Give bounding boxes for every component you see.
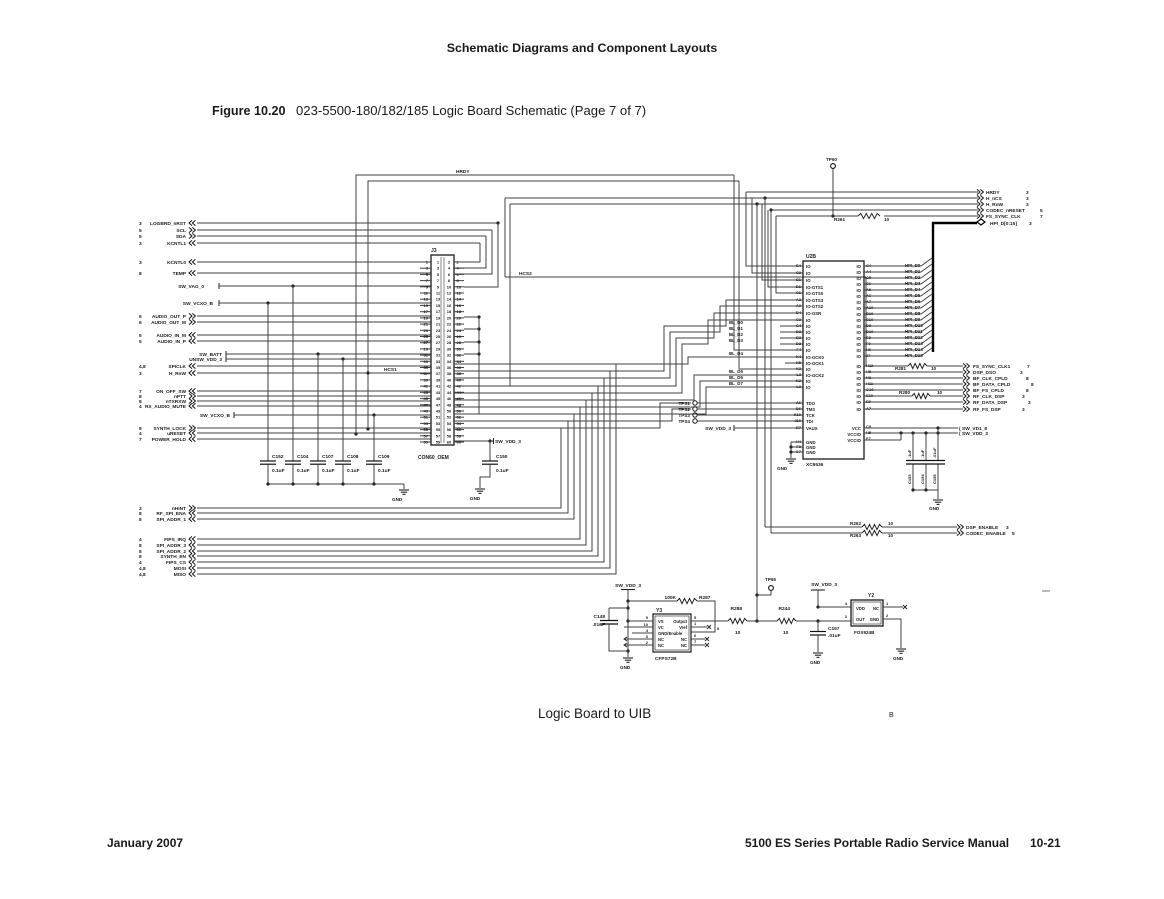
svg-text:7: 7 (139, 437, 142, 443)
svg-text:POWER_HOLD: POWER_HOLD (152, 437, 187, 443)
wire U2B IO stub 369 (785, 368, 803, 370)
node nTXRXW (139, 398, 195, 405)
svg-text:IO: IO (856, 276, 861, 281)
svg-text:8: 8 (139, 554, 142, 560)
svg-text:H_RnW: H_RnW (986, 202, 1004, 208)
capacitor C148 (592, 608, 628, 651)
net label BL_D6 (729, 375, 743, 380)
svg-text:13: 13 (424, 297, 429, 302)
svg-text:21: 21 (436, 322, 441, 327)
wire uRESET row (197, 432, 431, 434)
svg-text:48: 48 (447, 402, 452, 407)
net labels HPI_D0-D15 (905, 263, 923, 358)
svg-text:FS_SYNC_CLK: FS_SYNC_CLK (986, 214, 1021, 220)
svg-text:IO: IO (806, 348, 811, 353)
wire SCL row (197, 229, 492, 231)
op-amp U2B left pin names GCK (796, 354, 802, 389)
svg-text:IO: IO (806, 385, 811, 390)
svg-text:C152: C152 (272, 454, 284, 460)
svg-text:C104: C104 (297, 454, 309, 460)
wire UNSW_VDD_3 row (226, 357, 431, 360)
node SW_VDD_3 VAUX (705, 425, 734, 432)
node SPI_ADDR_1 (139, 516, 195, 523)
svg-text:20: 20 (457, 315, 462, 320)
op-amp U2B power pin labels (847, 424, 871, 443)
svg-text:R281: R281 (895, 366, 906, 371)
node SW_VDD_3 oscillator (811, 582, 837, 590)
svg-text:TPS2: TPS2 (679, 407, 691, 412)
svg-text:3: 3 (1026, 190, 1029, 196)
oscillator Y2 pin labels (856, 606, 879, 622)
svg-text:TP65: TP65 (765, 577, 776, 582)
svg-text:Schematic Diagrams and Compone: Schematic Diagrams and Component Layouts (447, 41, 718, 55)
svg-text:29: 29 (424, 346, 429, 351)
svg-text:C4: C4 (796, 323, 802, 328)
wire Y3 NC pins right x (691, 633, 709, 647)
wire U2B IO stub 338 (780, 337, 803, 339)
wire H_RnW down to U2B (762, 204, 803, 280)
svg-text:SW_VDD_3: SW_VDD_3 (495, 439, 521, 445)
wire H_RnW long rail (510, 202, 978, 386)
svg-text:BL_D3: BL_D3 (729, 338, 743, 343)
wire FS_SYNC_CLK1 row (864, 365, 963, 367)
wire SDA row (197, 235, 486, 237)
svg-text:AUDIO_OUT_M: AUDIO_OUT_M (151, 320, 186, 326)
node MISO (139, 571, 195, 578)
svg-text:IO: IO (856, 312, 861, 317)
svg-text:C157: C157 (828, 626, 840, 632)
svg-text:SCL: SCL (176, 228, 186, 234)
wire H_nCS long rail (505, 196, 978, 277)
svg-text:D6: D6 (796, 406, 802, 411)
svg-text:IO: IO (856, 282, 861, 287)
svg-text:26: 26 (447, 334, 452, 339)
svg-text:C150: C150 (496, 454, 508, 460)
svg-text:4: 4 (139, 560, 142, 566)
wire AUDIO_IN_P row (197, 340, 431, 342)
svg-text:5: 5 (139, 234, 142, 240)
svg-text:R288: R288 (731, 606, 743, 612)
node SYNTH_LOCK (139, 425, 195, 432)
svg-text:J3: J3 (431, 248, 437, 254)
wire U2B GSR stub (780, 312, 803, 314)
wire U2B IO stub 350 (785, 349, 803, 351)
svg-text:GND: GND (806, 450, 816, 455)
svg-text:IO: IO (806, 367, 811, 372)
wire SPI_ADDR_2 bundle path (197, 393, 592, 551)
svg-text:50: 50 (447, 409, 452, 414)
svg-text:5100 ES Series Portable Radio: 5100 ES Series Portable Radio Service Ma… (745, 836, 1009, 850)
svg-text:33: 33 (424, 359, 429, 364)
node DSP_ENABLE off-page (957, 524, 1009, 531)
svg-text:R261: R261 (834, 217, 845, 222)
svg-text:Output: Output (673, 619, 687, 624)
svg-text:K2: K2 (796, 378, 802, 383)
svg-text:IO: IO (806, 278, 811, 283)
svg-text:LOGBRD_nRST: LOGBRD_nRST (150, 221, 186, 227)
svg-text:NC: NC (658, 643, 664, 648)
svg-text:IO: IO (856, 318, 861, 323)
svg-text:GND: GND (870, 617, 879, 622)
svg-text:IO: IO (856, 270, 861, 275)
wire DSP_ENABLE row (765, 526, 957, 528)
node POWER_HOLD (139, 436, 195, 443)
svg-text:10: 10 (884, 217, 890, 222)
svg-text:51: 51 (436, 415, 441, 420)
svg-text:23: 23 (436, 328, 441, 333)
svg-text:IO: IO (856, 376, 861, 381)
wire MOSI bundle path (197, 371, 610, 568)
svg-text:59: 59 (436, 440, 441, 445)
svg-text:E1: E1 (796, 277, 802, 282)
svg-text:B: B (889, 712, 894, 719)
wire Y3 output pin (691, 615, 728, 631)
svg-text:36: 36 (447, 365, 452, 370)
svg-text:10: 10 (888, 521, 894, 526)
wire ON_OFF_SW row (197, 390, 431, 392)
svg-text:GND/Enable: GND/Enable (658, 631, 683, 636)
wire BL_D3 step to U2B (592, 320, 803, 393)
svg-text:12: 12 (447, 291, 452, 296)
svg-text:15: 15 (424, 303, 429, 308)
svg-text:OUT: OUT (856, 617, 865, 622)
svg-text:IO: IO (856, 300, 861, 305)
op-amp U2B left pin functions mid (806, 318, 811, 353)
svg-text:35: 35 (436, 365, 441, 370)
resistor R288 (728, 606, 757, 636)
svg-text:4: 4 (139, 431, 142, 437)
svg-text:CON60_OEM: CON60_OEM (418, 455, 449, 461)
svg-text:0.1uF: 0.1uF (496, 468, 509, 474)
svg-text:IO: IO (856, 388, 861, 393)
svg-text:SW_VDD_3: SW_VDD_3 (962, 431, 988, 437)
op-amp U2B body (803, 261, 864, 459)
svg-text:KCNTL1: KCNTL1 (167, 241, 186, 247)
page header title (447, 41, 718, 55)
wire RF_SPI_ENA bundle path (197, 421, 568, 513)
svg-text:J10: J10 (794, 418, 801, 423)
wire U2B GND pins join (789, 442, 803, 458)
svg-text:.01uF: .01uF (592, 622, 605, 628)
svg-text:VCCIO: VCCIO (847, 438, 861, 443)
svg-text:SPI_ADDR_3: SPI_ADDR_3 (156, 543, 186, 549)
net label BL_D0 (729, 320, 743, 325)
svg-text:8: 8 (139, 543, 142, 549)
wire nPTT row (197, 395, 431, 397)
svg-text:R244: R244 (779, 606, 791, 612)
node FIPS_IRQ (139, 536, 195, 543)
wire output node (755, 619, 777, 622)
svg-text:18: 18 (457, 309, 462, 314)
svg-text:IO: IO (856, 342, 861, 347)
svg-text:GND: GND (893, 656, 904, 661)
node SW_VAG_0 (178, 283, 219, 290)
wire BF_FS_CPLD row (864, 389, 963, 391)
op-amp U2B right pin functions HPI (856, 264, 861, 359)
svg-text:28: 28 (447, 340, 452, 345)
connector J3 refdes (431, 248, 437, 254)
test point TPS3 (679, 413, 698, 418)
svg-text:8: 8 (1026, 388, 1029, 394)
wire RX_AUDIO_MUTE row (197, 405, 431, 407)
svg-text:4: 4 (139, 404, 142, 410)
wire DSP_DSO row (864, 371, 963, 373)
wire DSP_ENABLE vertical (764, 198, 766, 527)
wire TEMP row to J3 pin5 (197, 272, 431, 274)
node BF_DATA_CPLD off-page (963, 381, 1034, 388)
svg-text:January 2007: January 2007 (107, 836, 183, 850)
svg-text:19: 19 (424, 315, 429, 320)
svg-text:33: 33 (436, 359, 441, 364)
svg-text:IO-GCK0: IO-GCK0 (806, 355, 825, 360)
svg-text:SW_VDD_3: SW_VDD_3 (705, 426, 731, 432)
svg-text:47: 47 (424, 402, 429, 407)
node SW_VDD_3 at J3 (494, 438, 522, 445)
svg-text:GND: GND (620, 665, 631, 670)
svg-text:6: 6 (139, 314, 142, 320)
svg-text:HRDY: HRDY (986, 190, 1000, 196)
wire SYNTH_LOCK row (197, 427, 431, 429)
svg-text:GND: GND (392, 497, 403, 502)
node SPI_ADDR_3 (139, 542, 195, 549)
svg-text:4,8: 4,8 (139, 364, 146, 370)
svg-text:27: 27 (436, 340, 441, 345)
wire Y2 GND pin (883, 613, 901, 648)
wire FS_SYNC_CLK row (776, 214, 978, 293)
svg-text:IO: IO (856, 394, 861, 399)
svg-text:IO: IO (856, 324, 861, 329)
svg-text:IO: IO (856, 288, 861, 293)
svg-text:NC: NC (681, 643, 687, 648)
wire HPI rows (864, 266, 921, 356)
svg-text:31: 31 (436, 353, 441, 358)
svg-text:27: 27 (424, 340, 429, 345)
svg-text:17: 17 (424, 309, 429, 314)
voltage reference Y3 refdes (656, 608, 662, 614)
svg-text:24: 24 (457, 328, 462, 333)
capacitor C154 (920, 433, 926, 490)
svg-text:C109: C109 (378, 454, 390, 460)
wire SW_VDD_3 vertical (626, 590, 629, 658)
test point TP65 (755, 577, 776, 597)
svg-text:IO-GTS1: IO-GTS1 (806, 285, 824, 290)
net label BL_D3 (729, 338, 743, 343)
wire HPI diagonals to bus (921, 258, 932, 356)
svg-text:10: 10 (735, 630, 741, 636)
svg-text:GND: GND (810, 660, 821, 665)
test point TPS1 (679, 401, 698, 406)
svg-text:IO: IO (806, 330, 811, 335)
svg-text:3: 3 (139, 221, 142, 227)
svg-text:10-21: 10-21 (1030, 836, 1061, 850)
svg-text:4,8: 4,8 (139, 566, 146, 572)
svg-text:.01uF: .01uF (828, 633, 841, 639)
svg-text:RF_CLK_DSP: RF_CLK_DSP (973, 394, 1005, 400)
svg-text:7: 7 (1040, 214, 1043, 220)
node DSP_DSO off-page (963, 369, 1023, 376)
wire caps ground rail (911, 488, 938, 499)
svg-text:IO-GTS0: IO-GTS0 (806, 291, 824, 296)
svg-text:IO: IO (806, 318, 811, 323)
wire AUDIO_OUT_M row (197, 321, 431, 323)
wire VCCIO second row (864, 433, 901, 440)
svg-text:AUDIO_OUT_P: AUDIO_OUT_P (152, 314, 187, 320)
svg-text:41: 41 (436, 384, 441, 389)
svg-text:CFPS72B: CFPS72B (655, 656, 677, 662)
svg-text:A6: A6 (796, 400, 802, 405)
node AUDIO_OUT_M (139, 319, 195, 326)
svg-text:C108: C108 (347, 454, 359, 460)
node BF_CLK_CPLD off-page (963, 375, 1029, 382)
svg-text:10: 10 (931, 366, 937, 371)
wire SW_VCXO_B lower row (234, 413, 431, 416)
svg-text:8: 8 (139, 271, 142, 277)
svg-text:FIPS_CS: FIPS_CS (166, 560, 187, 566)
wire U2B GTS3 stub (780, 299, 803, 301)
svg-text:IO-GTS3: IO-GTS3 (806, 298, 824, 303)
svg-text:32: 32 (447, 353, 452, 358)
wire H_nCS down to U2B (752, 198, 803, 273)
svg-text:D2: D2 (796, 329, 802, 334)
wire SPI_ADDR_3 bundle path (197, 400, 586, 545)
svg-text:UNSW_VDD_3: UNSW_VDD_3 (189, 357, 222, 363)
svg-text:3: 3 (139, 241, 142, 247)
svg-text:IO: IO (806, 336, 811, 341)
svg-text:VCCIO: VCCIO (847, 432, 861, 437)
svg-text:IO: IO (856, 400, 861, 405)
svg-text:DSP_ENABLE: DSP_ENABLE (966, 525, 999, 531)
node SW_VDD_3 regulator (615, 583, 641, 590)
svg-text:FIPS_IRQ: FIPS_IRQ (164, 537, 186, 543)
svg-text:E4: E4 (796, 263, 802, 268)
wire nTXRXW row (197, 400, 431, 402)
svg-text:BF_FS_CPLD: BF_FS_CPLD (973, 388, 1004, 394)
wire Y2 NC pin x (883, 601, 907, 609)
svg-text:HRDY: HRDY (456, 169, 470, 175)
svg-text:K10: K10 (794, 412, 802, 417)
op-amp U2B JTAG pin labels (806, 401, 818, 431)
svg-text:15: 15 (436, 303, 441, 308)
svg-text:0.1uF: 0.1uF (347, 468, 360, 474)
wire TPS4 to U2B JTAG (697, 420, 803, 422)
svg-text:34: 34 (457, 359, 462, 364)
wire SW_VCXO_B row (219, 301, 431, 304)
net label BL_D5 (729, 369, 743, 374)
connector J3 pin numbers (424, 260, 462, 445)
wire CODEC_ENABLE vertical (770, 210, 772, 533)
svg-text:40: 40 (447, 377, 452, 382)
svg-text:0.1uF: 0.1uF (272, 468, 285, 474)
wire TPS1 feed (561, 403, 691, 428)
svg-text:RF_SPI_ENA: RF_SPI_ENA (156, 511, 186, 517)
node uRESET (139, 430, 195, 437)
wire Y3 Vref pin x (691, 621, 711, 629)
wire HRDY left vertical (354, 169, 734, 436)
op-amp U2B refdes (806, 254, 816, 260)
op-amp U2B left pin functions GCK (806, 355, 825, 390)
node nHINT (139, 505, 195, 512)
voltage reference Y3 body (653, 614, 691, 652)
svg-text:RF_DATA_DSP: RF_DATA_DSP (973, 400, 1008, 406)
wire SW_VDD_3 to Y2 VDD (816, 590, 851, 619)
bottom caption Logic Board to UIB (538, 706, 651, 721)
svg-text:TPS3: TPS3 (679, 413, 691, 418)
svg-text:28: 28 (457, 340, 462, 345)
svg-text:R263: R263 (850, 533, 861, 538)
svg-text:44: 44 (447, 390, 452, 395)
svg-text:14: 14 (457, 297, 462, 302)
node CODEC_nRESET off-page (977, 207, 1043, 214)
svg-text:CODEC_ENABLE: CODEC_ENABLE (966, 531, 1007, 537)
svg-text:BF_CLK_CPLD: BF_CLK_CPLD (973, 376, 1008, 382)
svg-text:IO: IO (806, 342, 811, 347)
tick mark right margin (1042, 590, 1050, 592)
svg-text:BL_D0: BL_D0 (729, 320, 743, 325)
svg-text:E3: E3 (796, 335, 802, 340)
svg-text:3: 3 (1022, 407, 1025, 413)
ground C157 (810, 653, 823, 665)
svg-text:FS_SYNC_CLK1: FS_SYNC_CLK1 (973, 364, 1011, 370)
svg-text:C2: C2 (796, 270, 802, 275)
svg-text:uRESET: uRESET (167, 431, 186, 437)
svg-text:E7: E7 (796, 425, 802, 430)
svg-text:100K: 100K (665, 595, 677, 601)
wire BF_CLK_CPLD row (864, 377, 963, 379)
node SYNTH_EN (139, 553, 195, 560)
svg-text:24: 24 (447, 328, 452, 333)
svg-text:46: 46 (447, 396, 452, 401)
wire U2B GTS2 stub (780, 305, 803, 307)
svg-text:3: 3 (1026, 202, 1029, 208)
svg-text:DSP_DSO: DSP_DSO (973, 370, 996, 376)
svg-text:5: 5 (139, 333, 142, 339)
capacitor C153 (907, 433, 913, 490)
svg-text:43: 43 (424, 390, 429, 395)
svg-text:12: 12 (457, 291, 462, 296)
wire second top rail (366, 181, 739, 431)
svg-text:54: 54 (457, 421, 462, 426)
svg-text:4: 4 (139, 537, 142, 543)
svg-text:GND: GND (929, 506, 940, 511)
node AUDIO_IN_M (139, 332, 195, 339)
wire KCNTL1 to J3 pin2 (454, 243, 480, 262)
svg-text:14: 14 (447, 297, 452, 302)
svg-text:TP60: TP60 (826, 157, 837, 162)
svg-text:GND: GND (777, 466, 788, 471)
capacitor C157 (810, 621, 841, 652)
svg-text:3: 3 (1029, 221, 1032, 227)
svg-text:3: 3 (1022, 394, 1025, 400)
svg-text:4,8: 4,8 (139, 572, 146, 578)
node RF_SPI_ENA (139, 510, 195, 517)
capacitor C104 (285, 286, 310, 484)
net label BL_D7 (729, 381, 743, 386)
svg-text:RX_AUDIO_MUTE: RX_AUDIO_MUTE (145, 404, 187, 410)
svg-text:VC: VC (658, 625, 664, 630)
svg-text:16: 16 (457, 303, 462, 308)
svg-text:.01uF: .01uF (932, 447, 937, 458)
svg-text:29: 29 (436, 346, 441, 351)
svg-text:SW_VDD_3: SW_VDD_3 (811, 582, 837, 588)
svg-text:60: 60 (457, 440, 462, 445)
svg-text:SPI_ADDR_1: SPI_ADDR_1 (156, 517, 186, 523)
node H_RnW off-page (977, 201, 1029, 208)
figure caption (212, 103, 646, 118)
svg-text:SYNTH_EN: SYNTH_EN (160, 554, 186, 560)
svg-text:55: 55 (436, 427, 441, 432)
svg-text:R262: R262 (850, 521, 861, 526)
node SDA (139, 233, 195, 240)
